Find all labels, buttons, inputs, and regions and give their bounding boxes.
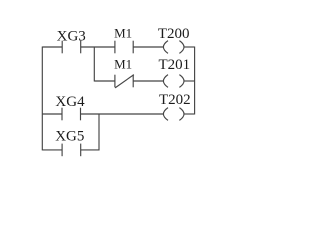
svg-text:M1: M1 — [114, 57, 132, 72]
wire row3 XG4 to coil T202 — [81, 113, 164, 115]
wire row3 left rail to XG4 — [42, 113, 62, 115]
wire row2 M1 NC to coil T201 — [133, 80, 163, 82]
svg-text:T200: T200 — [158, 26, 190, 42]
coil T201 — [163, 75, 184, 88]
svg-text:XG5: XG5 — [55, 128, 84, 144]
wire row1 XG3 to M1 — [81, 46, 115, 48]
svg-text:XG4: XG4 — [55, 94, 85, 110]
contact M1 (normally closed) — [115, 75, 134, 88]
left power rail — [41, 47, 43, 151]
right power rail — [194, 47, 196, 115]
contact M1 (normally open) — [115, 41, 133, 54]
wire branch riser row4 up to row3 — [98, 114, 100, 151]
wire row1 M1 to coil T200 — [133, 46, 163, 48]
coil T202 — [163, 108, 184, 121]
svg-text:T201: T201 — [158, 57, 190, 73]
wire row4 XG5 to branch riser — [81, 149, 100, 151]
contact XG5 (normally open, parallel with XG4) — [62, 144, 81, 157]
wire row1 left rail to XG3 — [42, 46, 62, 48]
contact XG3 (normally open) — [62, 41, 80, 54]
svg-text:XG3: XG3 — [57, 28, 86, 44]
svg-text:M1: M1 — [114, 26, 132, 41]
wire row3 coil T202 to right rail — [184, 113, 195, 115]
contact XG4 (normally open) — [62, 108, 81, 121]
coil T200 — [163, 41, 184, 54]
wire branch junction row1 down to row2 — [93, 47, 95, 82]
svg-text:T202: T202 — [159, 92, 191, 108]
wire row2 coil T201 to right rail — [184, 80, 195, 82]
wire row2 branch to M1 NC — [94, 80, 115, 82]
wire row1 coil T200 to right rail — [184, 46, 195, 48]
wire row4 left rail to XG5 — [42, 149, 62, 151]
